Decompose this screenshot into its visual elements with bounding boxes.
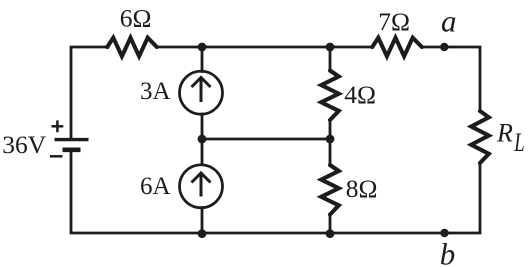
svg-text:36V: 36V [2, 130, 47, 159]
svg-text:a: a [441, 4, 457, 39]
svg-text:b: b [440, 237, 456, 267]
svg-text:6A: 6A [140, 173, 171, 200]
svg-text:4Ω: 4Ω [344, 80, 376, 109]
svg-text:3A: 3A [140, 78, 171, 105]
svg-text:R: R [496, 119, 513, 148]
svg-text:L: L [513, 128, 524, 157]
svg-text:6Ω: 6Ω [120, 3, 152, 32]
svg-text:8Ω: 8Ω [346, 174, 378, 203]
svg-text:7Ω: 7Ω [378, 7, 410, 36]
